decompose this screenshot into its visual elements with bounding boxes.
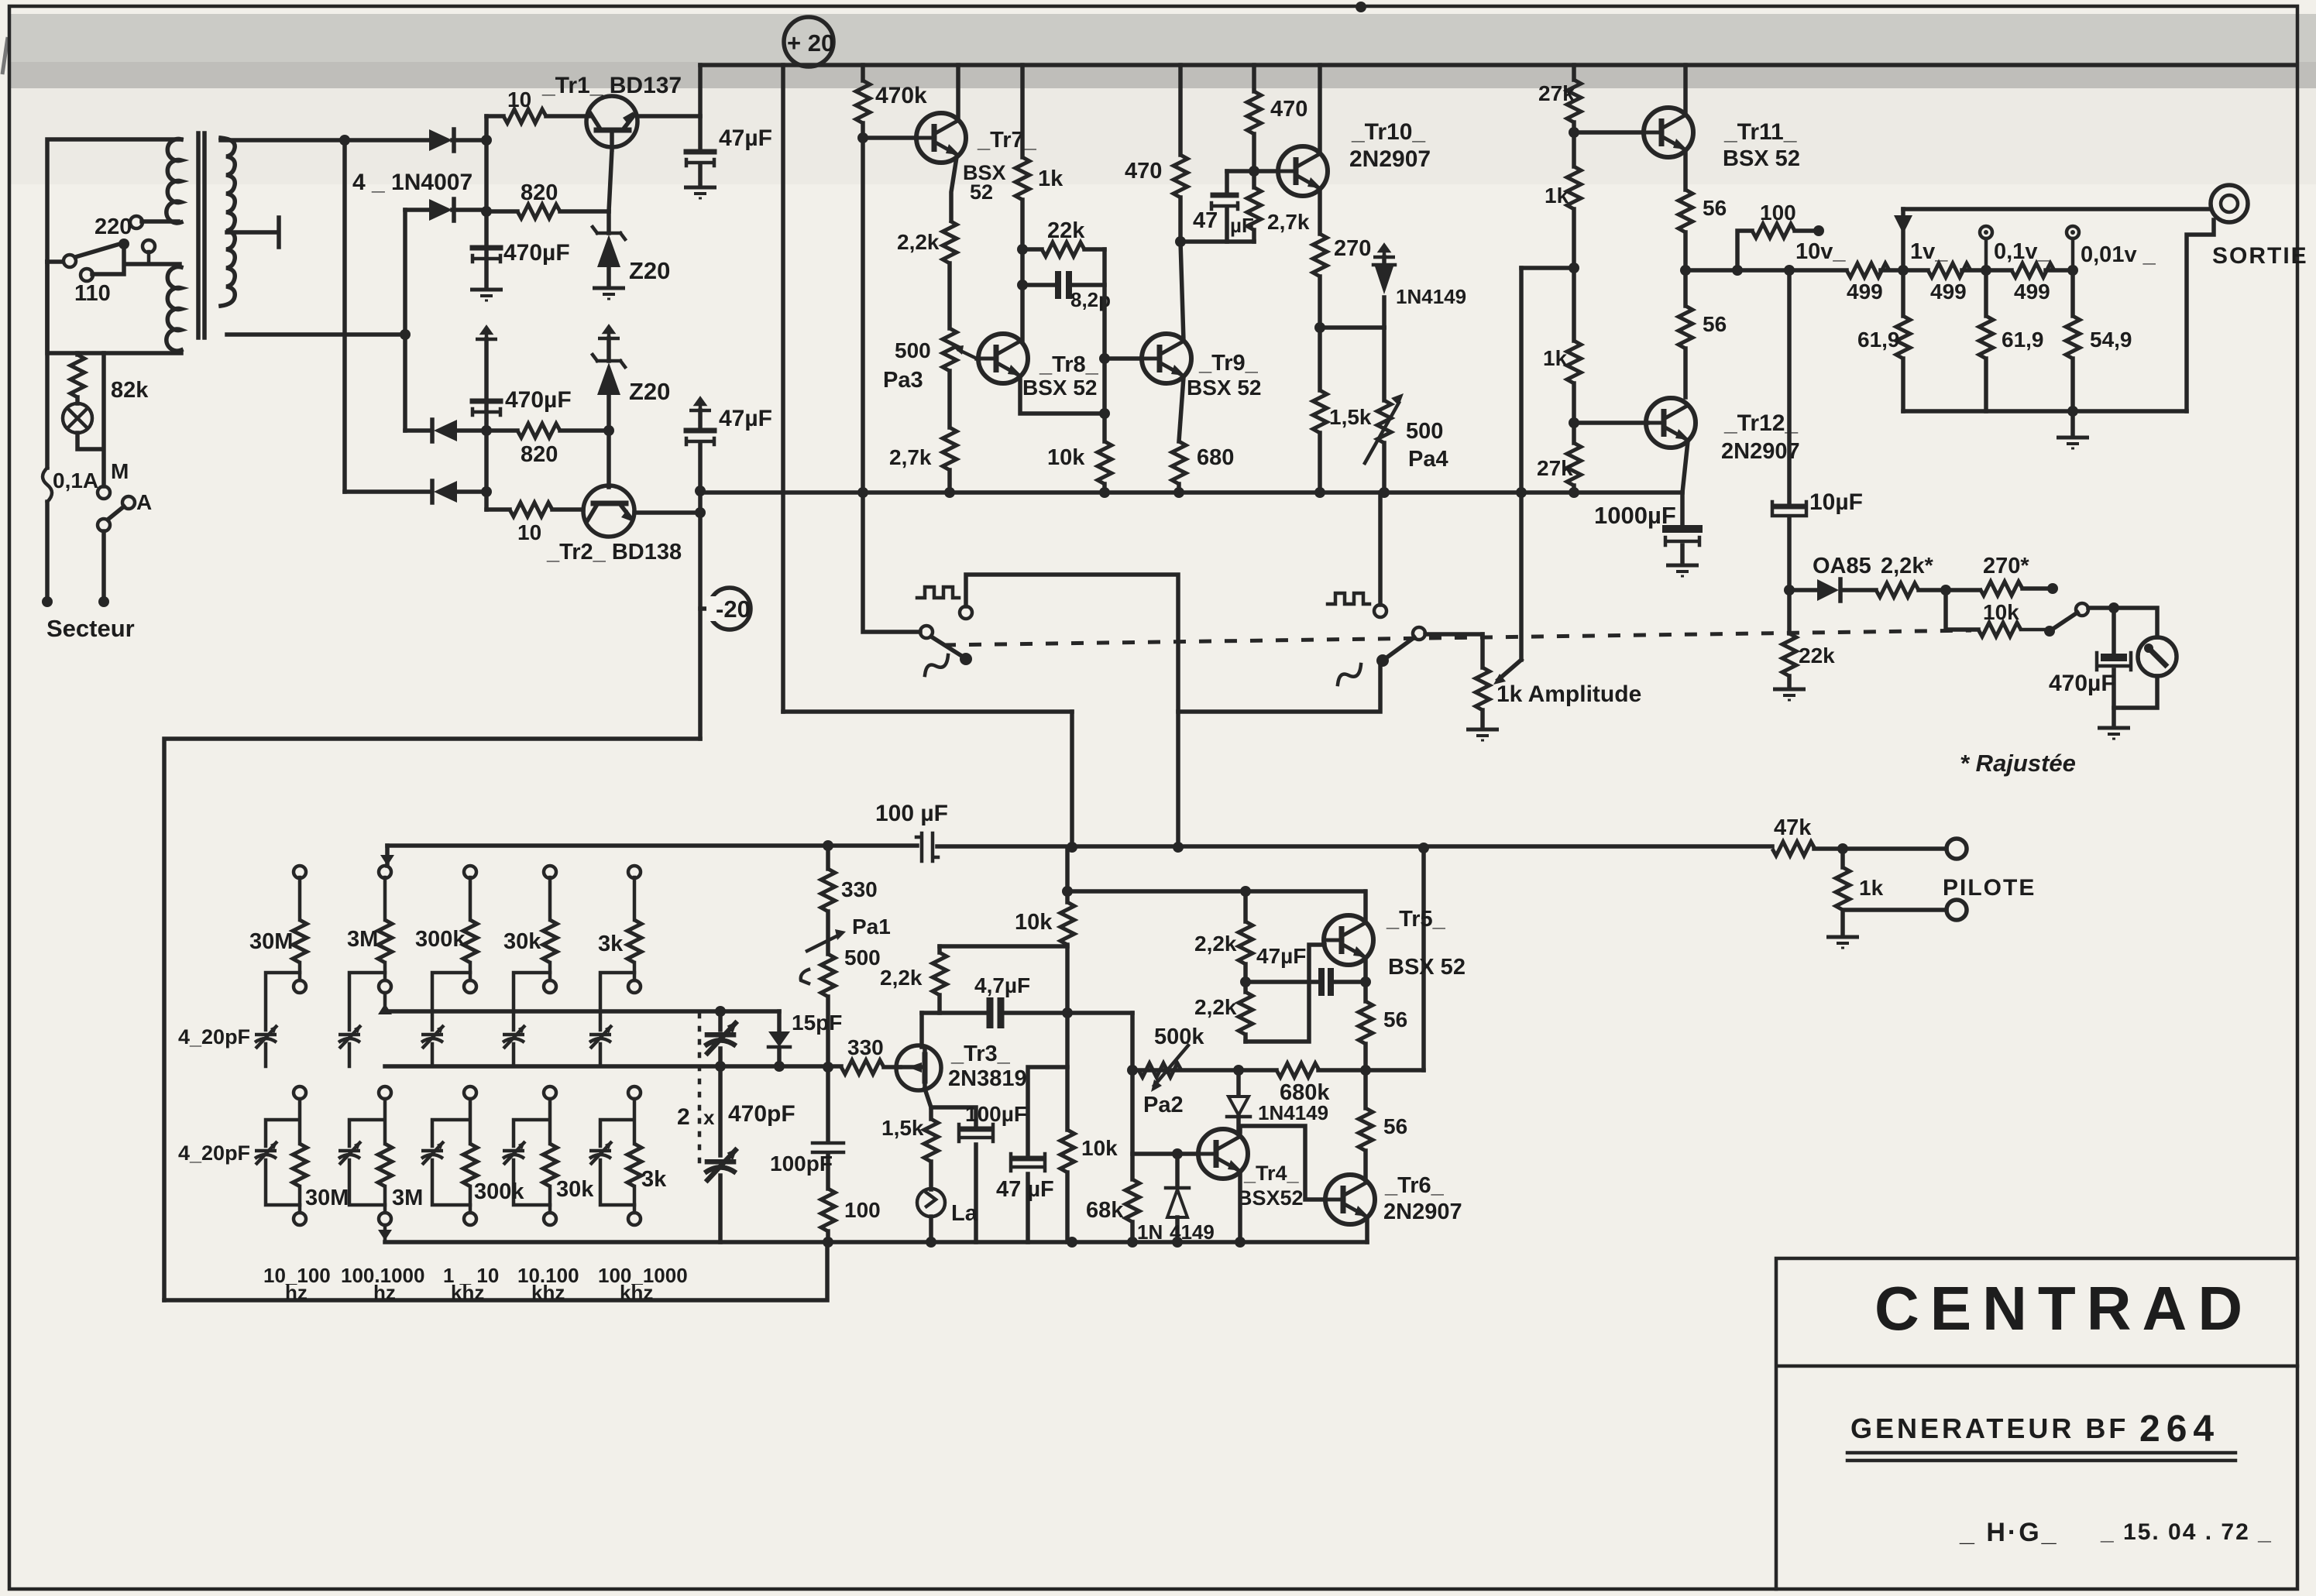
variable capacitor 470pF lower bbox=[718, 1066, 723, 1155]
node -20 terminal bbox=[700, 606, 710, 611]
transistor Tr6 2N2907 bbox=[1325, 1175, 1375, 1224]
symbol sine 2 bbox=[1338, 664, 1361, 685]
svg-text:_Tr5_: _Tr5_ bbox=[1386, 907, 1446, 932]
svg-text:2,2k: 2,2k bbox=[1194, 995, 1237, 1019]
svg-text:270: 270 bbox=[1334, 236, 1371, 261]
wire 1v tap vertical bbox=[1901, 209, 1905, 316]
wire OA85 row bbox=[1789, 588, 1816, 592]
plus mark above Z20 lower bbox=[598, 327, 620, 338]
symbol square wave 2 bbox=[1328, 593, 1369, 604]
ground below 470uF bbox=[470, 290, 503, 300]
transistor Tr1 BD137 bbox=[586, 96, 637, 147]
svg-text:1k: 1k bbox=[1859, 876, 1884, 900]
resistor 30M bottom bbox=[293, 1144, 307, 1186]
svg-text:3k: 3k bbox=[598, 932, 624, 956]
wire 470 right column bbox=[1252, 65, 1256, 242]
node Secteur terminal 2 bbox=[98, 596, 109, 607]
resistor 10k upper bbox=[1060, 902, 1074, 945]
svg-text:hz: hz bbox=[373, 1281, 396, 1304]
wire branch to 100 bbox=[1737, 231, 1752, 270]
node switch2 moving dot bbox=[1376, 654, 1389, 667]
wire branch to trimmer bbox=[266, 973, 300, 1030]
svg-text:_Tr10_: _Tr10_ bbox=[1351, 119, 1425, 145]
wire positive bus bbox=[484, 116, 489, 256]
resistor 10k lower bbox=[1060, 1130, 1074, 1172]
wire -20 return to range box bbox=[164, 739, 700, 1300]
svg-text:2,2k*: 2,2k* bbox=[1881, 554, 1933, 578]
resistor 56 agc upper bbox=[1359, 1001, 1373, 1044]
potentiometer 1k Amplitude bbox=[1480, 634, 1485, 668]
svg-text:_ 15. 04 . 72 _: _ 15. 04 . 72 _ bbox=[2100, 1519, 2273, 1545]
node 1v tap bbox=[1898, 265, 1909, 276]
resistor 30k bottom bbox=[543, 1144, 557, 1186]
wire lower cap branch bbox=[432, 1099, 470, 1146]
wire Tr5 base bbox=[1246, 945, 1325, 1042]
svg-text:54,9: 54,9 bbox=[2090, 328, 2132, 352]
svg-text:4 _ 1N4007: 4 _ 1N4007 bbox=[352, 170, 472, 195]
svg-text:30k: 30k bbox=[503, 929, 541, 954]
svg-text:470µF: 470µF bbox=[503, 240, 570, 266]
transistor Tr3 2N3819 fet bbox=[896, 1045, 941, 1090]
resistor 680k bbox=[1277, 1063, 1319, 1077]
wire coil2 bottom row bbox=[47, 262, 181, 353]
svg-text:2,2k: 2,2k bbox=[880, 966, 923, 990]
wire negative bus bbox=[484, 339, 489, 510]
transistor Tr2 BD138 bbox=[583, 486, 634, 537]
trimmer 4-20pF top 3M bbox=[338, 1025, 361, 1049]
diode D1 1N4007 bbox=[429, 129, 452, 151]
node square terminal 2 bbox=[1374, 605, 1387, 617]
svg-text:2,2k: 2,2k bbox=[897, 230, 940, 254]
resistor 54,9 bbox=[2070, 270, 2075, 316]
wire collector node bbox=[1318, 276, 1322, 390]
svg-text:820: 820 bbox=[521, 180, 558, 205]
svg-text:47k: 47k bbox=[1774, 815, 1812, 840]
title block box bbox=[1776, 1258, 2297, 1589]
resistor 56 agc lower bbox=[1363, 1070, 1368, 1108]
svg-text:BSX 52: BSX 52 bbox=[1022, 376, 1098, 400]
resistor 2,2k agc bottom bbox=[1239, 992, 1252, 1035]
node junction bbox=[400, 329, 411, 340]
wire to Tr2 bbox=[486, 507, 510, 512]
resistor 499 third bbox=[2012, 263, 2054, 277]
capacitor 47uF Tr10 bbox=[1225, 171, 1229, 192]
transistor Tr9 BSX52 bbox=[1142, 334, 1191, 383]
Pa3 wiper arrow bbox=[959, 350, 977, 359]
wire left switch feed joins bbox=[783, 709, 1072, 714]
potentiometer Pa1 500 bbox=[826, 911, 830, 954]
wire 22k feedback row bbox=[1022, 247, 1105, 252]
svg-text:470k: 470k bbox=[875, 83, 927, 108]
potentiometer Pa2 500k bbox=[1139, 1063, 1181, 1077]
svg-text:khz: khz bbox=[620, 1281, 653, 1304]
switch2 lever bbox=[1383, 637, 1414, 661]
wire feedback right vertical bbox=[1102, 249, 1107, 441]
svg-text:0,1A: 0,1A bbox=[53, 469, 98, 493]
capacitor 47uF lower with plus bbox=[689, 399, 711, 410]
resistor 499 second bbox=[1928, 263, 1971, 277]
diode arrow on tap bbox=[1894, 215, 1912, 234]
svg-text:820: 820 bbox=[521, 442, 558, 467]
svg-text:500: 500 bbox=[844, 946, 881, 970]
capacitor 100uF source bbox=[931, 1107, 976, 1127]
wire 3M bottom to rail bbox=[383, 1225, 387, 1242]
wire 27k/1k column bbox=[1572, 65, 1576, 493]
potentiometer Pa3 500 bbox=[947, 263, 952, 328]
svg-text:499: 499 bbox=[1930, 280, 1967, 304]
capacitor 47uF osc bbox=[1028, 1067, 1067, 1157]
wire lever to meter top bbox=[2088, 608, 2157, 637]
wire long vertical from rail bbox=[781, 65, 785, 712]
wire right branch bbox=[1178, 664, 1380, 712]
switch marche/arret lever bbox=[108, 506, 124, 520]
trimmer 4-20pF bottom 3M bbox=[338, 1141, 361, 1165]
resistor 68k bbox=[1125, 1179, 1139, 1222]
wire 470k column bbox=[861, 65, 865, 493]
svg-text:+ 20: + 20 bbox=[787, 29, 834, 57]
wire branch to trimmer bbox=[600, 973, 634, 1030]
resistor 47k pilote bbox=[1772, 842, 1815, 856]
capacitor 47uF (top) bbox=[698, 116, 703, 149]
wire to 270 bbox=[1946, 588, 1980, 592]
trimmer 4-20pF bottom 30M bbox=[255, 1141, 277, 1165]
fuse 0,1A bbox=[43, 468, 52, 502]
svg-text:22k: 22k bbox=[1799, 644, 1835, 668]
svg-text:47µF: 47µF bbox=[719, 125, 772, 151]
resistor 10k bbox=[1098, 441, 1112, 484]
node range contact bottom 30k bbox=[544, 1213, 556, 1225]
node range contact lower 3M bbox=[379, 1086, 391, 1099]
svg-text:_Tr6_: _Tr6_ bbox=[1384, 1173, 1445, 1198]
node +20 terminal bbox=[784, 17, 833, 67]
svg-text:3M: 3M bbox=[347, 927, 378, 952]
node range contact lower 30M bbox=[294, 1086, 306, 1099]
resistor 100 bbox=[1752, 224, 1795, 238]
transistor Tr7 BSX52 bbox=[916, 113, 966, 163]
svg-text:Secteur: Secteur bbox=[46, 615, 135, 642]
svg-text:100µF: 100µF bbox=[965, 1102, 1027, 1126]
node range contact lower 300k bbox=[464, 1086, 476, 1099]
wire branch to trimmer sp bbox=[349, 973, 385, 1030]
wire lower cap branch bbox=[600, 1099, 634, 1146]
wire Tr1 base down bbox=[609, 130, 612, 211]
node Tr12 base junction bbox=[1569, 417, 1579, 428]
node contact 220 bbox=[130, 216, 143, 228]
node switch1 pivot bbox=[920, 626, 933, 638]
wire gate bus bbox=[385, 1064, 841, 1069]
node Tr11 base junction bbox=[1569, 127, 1579, 138]
node 0,1v tap bbox=[1981, 265, 1991, 276]
wire 680k row bbox=[1132, 1068, 1424, 1073]
wire bridge mid vertical bbox=[403, 210, 407, 431]
trimmer 4-20pF top 30k bbox=[503, 1025, 525, 1049]
resistor 1,5k source bbox=[924, 1119, 938, 1162]
wire switch1 feed bbox=[863, 493, 920, 632]
svg-text:61,9: 61,9 bbox=[1857, 328, 1900, 352]
wire meter bottom bbox=[2114, 676, 2157, 726]
svg-text:500: 500 bbox=[1406, 419, 1443, 444]
wire gate to Tr3 bbox=[884, 1065, 900, 1069]
variable capacitor 470pF upper bbox=[718, 1011, 723, 1030]
capacitor 470uF lower bbox=[472, 399, 500, 404]
svg-text:30M: 30M bbox=[305, 1186, 349, 1210]
svg-text:1,5k: 1,5k bbox=[881, 1116, 924, 1140]
node contact A bbox=[122, 496, 135, 509]
svg-text:56: 56 bbox=[1383, 1007, 1407, 1031]
wire Tr5 emitter bbox=[1363, 959, 1368, 1001]
svg-text:0,01v _: 0,01v _ bbox=[2081, 242, 2156, 267]
svg-text:4_20pF: 4_20pF bbox=[178, 1141, 250, 1165]
svg-text:Z20: Z20 bbox=[629, 378, 670, 405]
resistor 820 lower bbox=[486, 428, 517, 433]
diode 1N4149 agc1 bbox=[1236, 1070, 1241, 1095]
resistor 10 lower bbox=[510, 503, 552, 517]
svg-text:100: 100 bbox=[844, 1198, 881, 1222]
diode OA85 bbox=[1817, 579, 1839, 601]
node 0,01v terminal bbox=[2067, 226, 2079, 239]
wire switch2 to amplitude pot bbox=[1425, 632, 1483, 637]
node range contact bottom 30M bbox=[294, 1213, 306, 1225]
node cal terminal bbox=[1813, 225, 1824, 236]
wire 3M column bus link bbox=[383, 993, 387, 1005]
wire Pa2 left column bbox=[1130, 1070, 1135, 1179]
transistor Tr4 BSX52 bbox=[1198, 1129, 1248, 1179]
resistor 10k adj bbox=[1978, 623, 2021, 637]
wire 2,2k chain bbox=[1243, 891, 1248, 922]
potentiometer Pa4 500 bbox=[1382, 328, 1387, 400]
wire Tr6 emitter bbox=[1365, 1218, 1369, 1242]
node PILOTE terminal 1 bbox=[1947, 839, 1967, 859]
svg-text:PILOTE: PILOTE bbox=[1943, 875, 2036, 901]
switch meter lever bbox=[2050, 613, 2077, 631]
resistor 56 upper bbox=[1679, 190, 1692, 232]
svg-text:2,2k: 2,2k bbox=[1194, 932, 1237, 956]
blob on top border bbox=[1356, 2, 1366, 12]
wire Tr9 collector node row bbox=[1180, 239, 1254, 244]
svg-text:10k: 10k bbox=[1015, 910, 1053, 935]
resistor 1k upper bbox=[1567, 166, 1581, 209]
resistor 27k top bbox=[1567, 80, 1581, 122]
wire secondary bottom bbox=[227, 332, 405, 337]
meter M bbox=[2138, 637, 2177, 676]
svg-text:CENTRAD: CENTRAD bbox=[1874, 1274, 2253, 1343]
wire divider tap bbox=[1521, 266, 1574, 270]
wire Tr2 emitter right bbox=[634, 510, 700, 515]
resistor 1,5k bbox=[1313, 390, 1327, 433]
resistor 2,2k Pa3 top bbox=[943, 221, 957, 263]
wire divider tap down to wiper bbox=[1519, 268, 1524, 660]
wire pilote lower row bbox=[1843, 910, 1947, 935]
diode D2 1N4007 bbox=[405, 208, 429, 212]
svg-text:* Rajustée: * Rajustée bbox=[1960, 750, 2076, 777]
wire bridge left vertical bbox=[342, 140, 347, 492]
svg-text:_Tr3_: _Tr3_ bbox=[950, 1042, 1011, 1066]
svg-text:GENERATEUR BF: GENERATEUR BF bbox=[1850, 1412, 2129, 1444]
lamp La bbox=[929, 1162, 933, 1189]
zener Z20 upper bbox=[606, 211, 611, 233]
resistor 3M bottom bbox=[378, 1144, 392, 1186]
wire lower cap branch bbox=[514, 1099, 550, 1146]
transistor Tr12 2N2907 bbox=[1646, 398, 1696, 448]
svg-text:56: 56 bbox=[1383, 1114, 1407, 1138]
dashed gang line bbox=[943, 630, 1971, 645]
svg-text:82k: 82k bbox=[111, 378, 149, 403]
svg-text:100: 100 bbox=[1760, 201, 1796, 225]
svg-text:47 µF: 47 µF bbox=[996, 1177, 1054, 1202]
node square terminal 1 bbox=[960, 606, 972, 619]
wire row to R10 bbox=[486, 114, 503, 118]
resistor 2,2k* bbox=[1876, 583, 1919, 597]
resistor 270* bbox=[1980, 582, 2022, 595]
svg-text:2,7k: 2,7k bbox=[889, 445, 932, 469]
node SORTIE terminal bbox=[2211, 185, 2248, 222]
svg-text:10µF: 10µF bbox=[1809, 489, 1863, 515]
resistor 1k pilote bbox=[1837, 843, 1848, 854]
wire aux stub bbox=[147, 252, 151, 264]
wire right side up bbox=[2187, 220, 2214, 411]
svg-text:499: 499 bbox=[2014, 280, 2050, 304]
wire branch to trimmer bbox=[432, 973, 470, 1030]
wire Tr10 collector down bbox=[1318, 190, 1322, 234]
resistor 330 gate bbox=[841, 1060, 884, 1074]
wire to output node bbox=[1683, 232, 1688, 306]
ground pilote bbox=[1826, 937, 1859, 948]
wire down from switch box bbox=[1070, 712, 1074, 847]
wire Tr12 base bbox=[1574, 420, 1648, 425]
svg-text:M: M bbox=[111, 459, 129, 483]
wire Tr8 collector column bbox=[1020, 65, 1025, 341]
svg-text:300k: 300k bbox=[415, 927, 466, 952]
svg-text:27k: 27k bbox=[1537, 456, 1573, 480]
svg-text:Pa1: Pa1 bbox=[852, 915, 891, 939]
svg-text:BSX52: BSX52 bbox=[1237, 1186, 1304, 1210]
svg-text:220: 220 bbox=[94, 215, 132, 239]
svg-text:2N3819: 2N3819 bbox=[948, 1066, 1027, 1091]
wire mains live vertical bbox=[45, 262, 50, 596]
trimmer 4-20pF bottom 30k bbox=[503, 1141, 525, 1165]
resistor 22k bbox=[1042, 242, 1084, 256]
svg-text:x: x bbox=[703, 1106, 715, 1129]
wire secondary center tap bbox=[227, 218, 279, 247]
node 270 terminal bbox=[2047, 583, 2058, 594]
resistor 10 bbox=[503, 109, 546, 123]
node range contact lower 3k bbox=[628, 1086, 641, 1099]
transistor Tr11 BSX52 bbox=[1644, 108, 1693, 157]
svg-text:10: 10 bbox=[517, 520, 541, 544]
svg-text:BSX 52: BSX 52 bbox=[1187, 376, 1262, 400]
wire Tr10 emitter to rail bbox=[1318, 65, 1322, 153]
transistor Tr10 2N2907 bbox=[1278, 146, 1328, 196]
wire Tr8 emitter bbox=[1020, 377, 1105, 414]
wire square1 up and over bbox=[966, 575, 1178, 847]
resistor 3k bottom bbox=[627, 1144, 641, 1186]
wire secondary top bbox=[221, 138, 429, 142]
wire Tr1 emitter to +20 corner bbox=[637, 65, 700, 116]
wire selector common down bbox=[92, 244, 180, 274]
wire Tr7 collector to rail bbox=[956, 65, 960, 120]
svg-text:_Tr4_: _Tr4_ bbox=[1243, 1162, 1300, 1185]
resistor 300k top bbox=[469, 877, 472, 920]
resistor 61,9 first bbox=[1896, 316, 1910, 359]
resistor 61,9 second bbox=[1984, 270, 1988, 316]
wire Tr4 collector box to Tr6 base bbox=[1240, 1126, 1325, 1200]
wire Tr11 emitter bbox=[1683, 150, 1688, 190]
wire 2,2k top row bbox=[940, 944, 1067, 949]
trimmer 4-20pF bottom 3k bbox=[589, 1141, 612, 1165]
wire R10 to Tr1 bbox=[546, 114, 589, 118]
node contact aux bbox=[143, 240, 155, 252]
ground meter bbox=[2098, 728, 2130, 739]
wire lower cap branch bbox=[266, 1099, 300, 1146]
wire Tr9 emitter bbox=[1179, 377, 1184, 441]
capacitor 4,7uF bbox=[922, 1011, 1132, 1015]
wire coil1 top bbox=[47, 139, 181, 262]
svg-text:330: 330 bbox=[841, 877, 878, 901]
capacitor 470uF upper bbox=[472, 245, 500, 251]
wire Tr5 box top bbox=[1072, 889, 1365, 894]
ground below 47uF bbox=[684, 187, 716, 198]
wire lower cap branch bbox=[349, 1099, 385, 1146]
svg-text:BSX 52: BSX 52 bbox=[1723, 146, 1800, 171]
wire 220 to primary 1 bbox=[142, 219, 178, 224]
wire Tr7 base bbox=[863, 136, 916, 140]
resistor 1k bbox=[1015, 157, 1029, 200]
capacitor 100uF coupling bbox=[916, 833, 938, 861]
node range contact bottom 3k bbox=[628, 1213, 641, 1225]
resistor 2,7k Tr10 bbox=[1247, 187, 1261, 230]
svg-text:470: 470 bbox=[1125, 159, 1162, 184]
transistor Tr5 BSX52 bbox=[1324, 915, 1373, 965]
svg-text:61,9: 61,9 bbox=[2002, 328, 2044, 352]
svg-text:khz: khz bbox=[531, 1281, 565, 1304]
capacitor 8,2pF row bbox=[1022, 283, 1105, 287]
resistor 470k bbox=[856, 81, 870, 123]
svg-text:47µF: 47µF bbox=[1256, 944, 1306, 968]
node range contact top 30M bbox=[294, 866, 306, 878]
wire lever feed bbox=[47, 259, 63, 264]
transformer primary coil 2 bbox=[167, 267, 181, 352]
page border frame bbox=[2, 37, 8, 74]
wire Tr10 base row bbox=[1227, 169, 1278, 173]
svg-text:10k: 10k bbox=[1047, 445, 1085, 470]
svg-text:10k: 10k bbox=[1081, 1136, 1118, 1160]
svg-text:khz: khz bbox=[451, 1281, 484, 1304]
svg-text:270*: 270* bbox=[1983, 554, 2029, 578]
svg-text:3k: 3k bbox=[641, 1167, 667, 1192]
node range contact 3k lower bbox=[628, 980, 641, 993]
node range contact 30M lower bbox=[294, 980, 306, 993]
svg-text:470µF: 470µF bbox=[505, 387, 572, 413]
wire amp bottom rail bbox=[700, 490, 1682, 495]
svg-text:Pa2: Pa2 bbox=[1143, 1093, 1184, 1117]
svg-text:68k: 68k bbox=[1086, 1198, 1124, 1223]
wire Pa1 to gate bus bbox=[826, 997, 830, 1067]
svg-text:4_20pF: 4_20pF bbox=[178, 1025, 250, 1049]
wire Tr9 base bbox=[1105, 356, 1142, 361]
svg-text:499: 499 bbox=[1847, 280, 1883, 304]
svg-text:1k Amplitude: 1k Amplitude bbox=[1496, 681, 1641, 707]
svg-text:2N2907: 2N2907 bbox=[1349, 146, 1431, 172]
svg-text:SORTIE: SORTIE bbox=[2212, 243, 2308, 269]
transformer primary coil 1 bbox=[167, 139, 181, 224]
svg-text:-20: -20 bbox=[716, 595, 751, 623]
wire Tr4 emitter bbox=[1238, 1174, 1242, 1242]
svg-text:10k: 10k bbox=[1983, 600, 2019, 624]
resistor 270 bbox=[1313, 234, 1327, 276]
svg-text:56: 56 bbox=[1703, 312, 1727, 336]
svg-text:470: 470 bbox=[1270, 97, 1307, 122]
diode 1N4149 agc2 bbox=[1175, 1154, 1180, 1186]
